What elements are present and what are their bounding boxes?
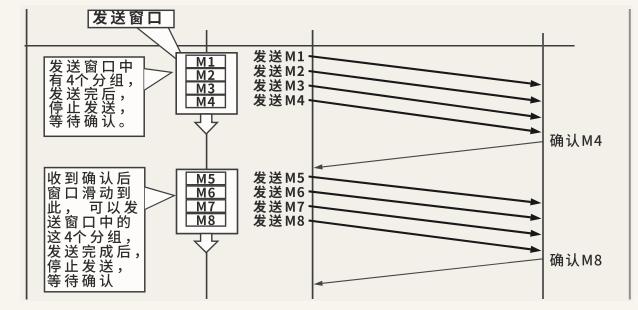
box packet M6 <box>186 186 225 199</box>
text packet label M3 <box>197 83 215 93</box>
text explanation 1 row 2 有4个分组， <box>49 73 132 87</box>
text packet label M8 <box>197 215 215 225</box>
text send-window label 发送窗口 <box>93 10 161 25</box>
text explanation 2 row 3 此， 可以发 <box>47 201 137 215</box>
text send label 发送M6 <box>253 186 304 199</box>
arrow data frame M2 send <box>309 71 531 100</box>
text explanation 1 row 3 发送完后， <box>49 87 124 101</box>
box packet M8 <box>186 214 225 227</box>
box packet M7 <box>186 200 225 213</box>
text packet label M5 <box>197 174 215 184</box>
box packet M5 <box>186 172 225 185</box>
text explanation 2 row 7 停止发送， <box>47 259 121 273</box>
text send label 发送M8 <box>253 214 304 227</box>
box explanation 2 rect <box>45 168 145 292</box>
box send window 2 container <box>177 169 238 233</box>
box explanation 1 rect <box>44 57 144 136</box>
text packet label M2 <box>197 70 215 80</box>
wire top horizontal line <box>25 45 575 47</box>
wire receiver timeline <box>542 33 544 299</box>
box packet M1 <box>186 55 225 67</box>
box packet M3 <box>186 82 225 95</box>
arrow data frame M8 send <box>309 221 531 250</box>
arrow data frame M3 send <box>309 86 531 117</box>
box send window 1 container <box>176 53 237 114</box>
wire left frame vertical line <box>26 9 28 300</box>
text send label 发送M1 <box>253 50 304 63</box>
arrow ack M4 <box>322 142 543 167</box>
text packet label M1 <box>197 57 215 67</box>
arrow data frame M1 send <box>309 56 531 84</box>
wire right frame vertical line <box>629 9 631 300</box>
box packet M4 <box>186 95 225 108</box>
text explanation 1 row 4 停止发送， <box>49 101 124 115</box>
text send label 发送M7 <box>253 200 304 213</box>
arrow hollow window-slide arrow 2 <box>195 234 218 253</box>
callout tail of explanation box 2 <box>145 187 175 210</box>
text send label 发送M5 <box>253 171 304 184</box>
box packet M2 <box>186 69 225 82</box>
text explanation 1 row 5 等待确认。 <box>49 114 124 127</box>
arrow data frame M7 send <box>309 206 531 233</box>
text send label 发送M4 <box>253 94 304 107</box>
callout box send-window label <box>88 10 174 27</box>
text explanation 2 row 2 窗口滑动到 <box>48 186 130 199</box>
text ack label 确认M8 <box>550 253 601 266</box>
text send label 发送M2 <box>253 65 304 78</box>
text send label 发送M3 <box>253 79 304 92</box>
wire process line above window 1 <box>206 30 208 53</box>
arrow data frame M5 send <box>309 177 531 202</box>
arrow data frame M4 send <box>309 100 531 131</box>
text ack label 确认M4 <box>550 134 602 147</box>
text packet label M4 <box>197 97 215 107</box>
callout tail of send-window label <box>136 27 183 62</box>
arrow data frame M6 send <box>309 191 531 217</box>
arrow ack M8 <box>322 259 543 284</box>
text explanation 2 row 4 送窗口中的 <box>47 215 130 228</box>
text packet label M7 <box>197 202 215 212</box>
text explanation 1 row 1 发送窗口中 <box>49 59 132 72</box>
wire sender timeline <box>312 30 314 299</box>
text explanation 2 row 6 发送完成后， <box>47 244 139 258</box>
arrow hollow window-slide arrow 1 <box>195 114 217 134</box>
text packet label M6 <box>197 188 215 198</box>
text explanation 2 row 8 等待确认 <box>47 274 113 287</box>
wire process line between windows <box>206 133 208 170</box>
callout tail of explanation box 1 <box>144 69 172 91</box>
text explanation 2 row 5 这4个分组， <box>47 230 129 244</box>
text explanation 2 row 1 收到确认后 <box>48 171 131 184</box>
wire process line below window 2 <box>206 252 208 299</box>
